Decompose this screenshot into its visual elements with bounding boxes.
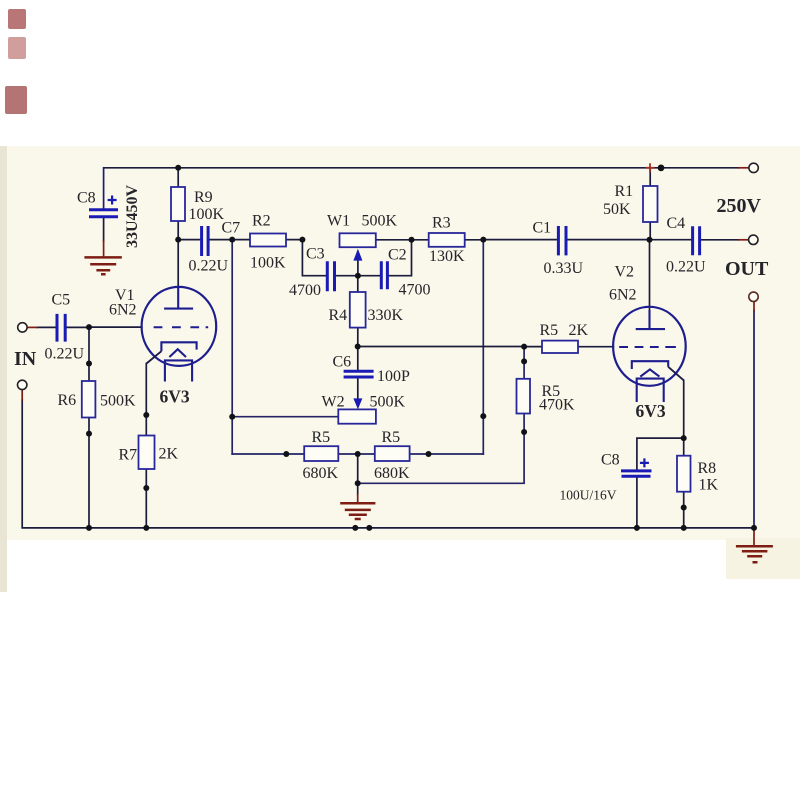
svg-text:680K: 680K	[374, 465, 410, 482]
svg-text:680K: 680K	[303, 465, 339, 482]
svg-text:100U/16V: 100U/16V	[560, 488, 617, 503]
svg-text:C6: C6	[333, 354, 352, 371]
svg-text:R5: R5	[382, 429, 401, 446]
svg-text:R8: R8	[698, 460, 717, 477]
svg-text:500K: 500K	[362, 213, 398, 230]
svg-text:1K: 1K	[699, 477, 719, 494]
svg-text:4700: 4700	[289, 282, 321, 299]
svg-text:6V3: 6V3	[160, 387, 190, 407]
svg-text:R5: R5	[312, 429, 331, 446]
svg-text:0.22U: 0.22U	[189, 258, 229, 275]
svg-text:V2: V2	[615, 264, 635, 281]
svg-text:500K: 500K	[370, 394, 406, 411]
svg-text:6V3: 6V3	[636, 401, 666, 421]
svg-text:C8: C8	[601, 452, 620, 469]
svg-text:0.22U: 0.22U	[45, 345, 85, 362]
svg-text:2K: 2K	[159, 445, 179, 462]
svg-text:OUT: OUT	[725, 258, 769, 280]
svg-text:R2: R2	[252, 213, 271, 230]
svg-text:6N2: 6N2	[609, 287, 637, 304]
svg-text:0.33U: 0.33U	[544, 260, 584, 277]
svg-text:330K: 330K	[368, 307, 404, 324]
svg-text:C8: C8	[77, 190, 96, 207]
svg-text:R9: R9	[194, 189, 213, 206]
svg-text:470K: 470K	[539, 397, 575, 414]
svg-text:100P: 100P	[377, 368, 410, 385]
svg-text:100K: 100K	[250, 254, 286, 271]
svg-text:6N2: 6N2	[109, 301, 137, 318]
svg-text:R3: R3	[432, 215, 451, 232]
svg-text:C5: C5	[52, 291, 71, 308]
svg-text:C4: C4	[667, 215, 686, 232]
svg-text:4700: 4700	[399, 281, 431, 298]
svg-text:500K: 500K	[100, 393, 136, 410]
svg-text:33U450V: 33U450V	[124, 184, 141, 248]
svg-text:C3: C3	[306, 245, 325, 262]
svg-text:130K: 130K	[429, 248, 465, 265]
svg-text:R1: R1	[615, 183, 634, 200]
svg-text:250V: 250V	[717, 195, 762, 217]
svg-text:R5: R5	[540, 322, 559, 339]
svg-text:C7: C7	[222, 220, 241, 237]
svg-text:C1: C1	[533, 220, 552, 237]
svg-text:R6: R6	[58, 392, 77, 409]
svg-text:R4: R4	[329, 307, 348, 324]
svg-text:0.22U: 0.22U	[666, 258, 706, 275]
svg-text:W2: W2	[322, 394, 345, 411]
svg-text:W1: W1	[327, 213, 350, 230]
svg-text:IN: IN	[14, 348, 37, 370]
svg-text:50K: 50K	[603, 201, 631, 218]
svg-text:C2: C2	[388, 246, 407, 263]
svg-text:2K: 2K	[569, 322, 589, 339]
svg-text:R7: R7	[119, 446, 138, 463]
svg-text:100K: 100K	[189, 206, 225, 223]
